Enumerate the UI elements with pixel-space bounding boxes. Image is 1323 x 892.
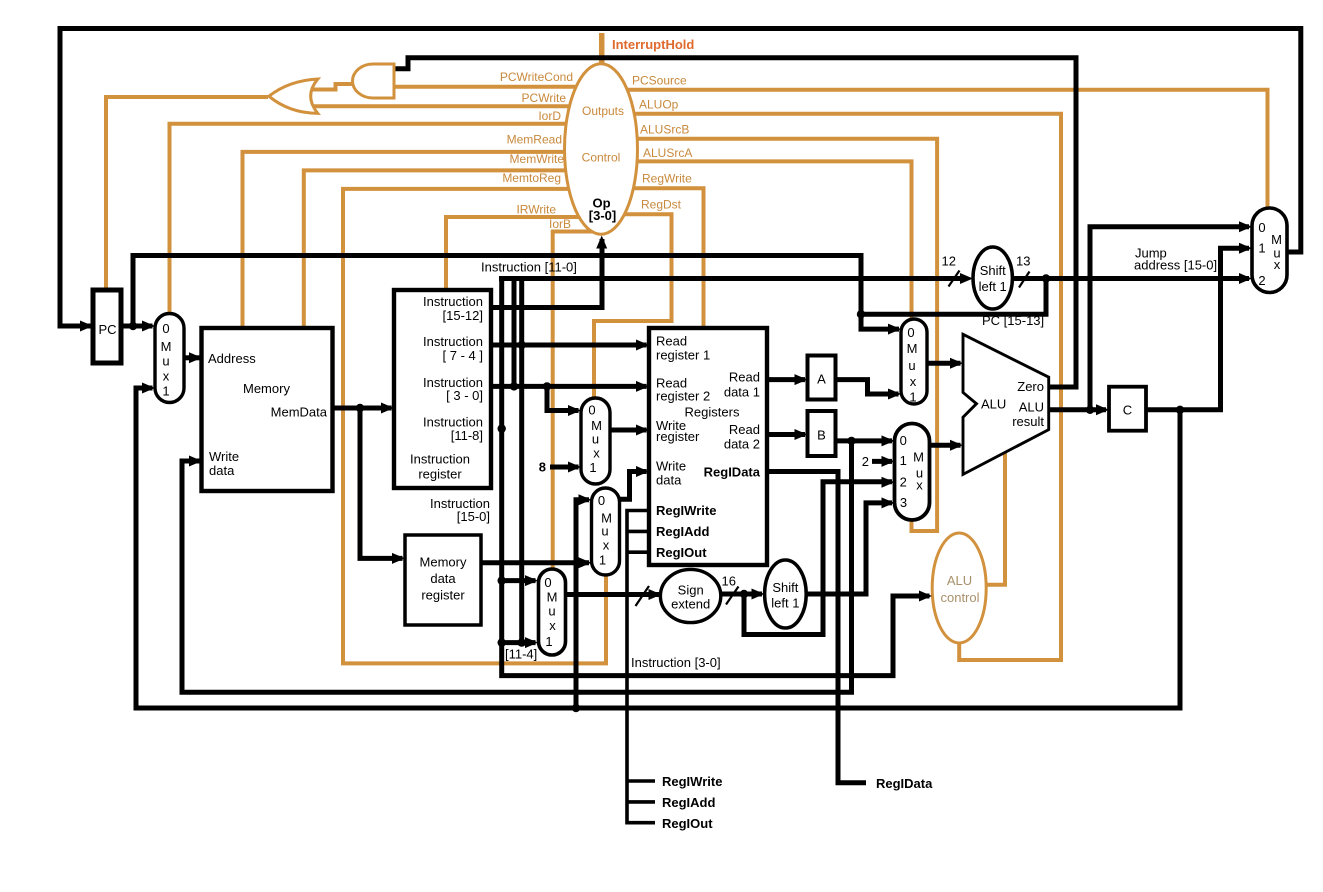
svg-text:x: x [916, 478, 923, 493]
wire constant 2 stub to B mux input 1 [872, 459, 892, 464]
wire address mux output to memory address [184, 355, 200, 360]
svg-text:left 1: left 1 [979, 279, 1007, 294]
svg-text:1: 1 [1258, 241, 1265, 256]
svg-text:u: u [162, 354, 169, 369]
wire IorB (control to [11-4] mux select) [553, 232, 599, 569]
svg-text:Address: Address [208, 351, 256, 366]
arrow into ALU input 2 [950, 440, 963, 451]
svg-text:M: M [547, 590, 558, 605]
wire PC write enable (gate output to PC) [106, 97, 268, 290]
svg-text:ALUSrcB: ALUSrcB [640, 123, 689, 137]
wire Instruction [3-0] to read register 2 [491, 384, 647, 389]
mux [11-4] (IorB) [539, 569, 566, 655]
arrow into B register [795, 429, 808, 440]
wire MemWrite (control to memory) [304, 170, 600, 327]
arrow into memory write data [189, 456, 202, 467]
wire Instruction [11-0] bus to shift left 1 [499, 276, 966, 281]
svg-text:M: M [913, 450, 924, 465]
svg-text:Instruction: Instruction [423, 294, 483, 309]
svg-text:x: x [593, 446, 600, 461]
wire RegIWrite bottom stub [627, 779, 655, 783]
mux write-data (MemtoReg) [592, 488, 620, 575]
wire [11-4] mux output to sign extend [565, 592, 659, 597]
svg-text:address [15-0]: address [15-0] [1134, 258, 1217, 273]
svg-text:ALU: ALU [1019, 400, 1044, 415]
svg-text:MemRead: MemRead [507, 133, 562, 147]
svg-text:RegDst: RegDst [641, 198, 682, 212]
memory data register box [405, 535, 481, 625]
svg-text:PC [15-13]: PC [15-13] [982, 313, 1044, 328]
wire sign extend tap to B mux input 2 [744, 482, 892, 635]
svg-text:PCWriteCond: PCWriteCond [500, 70, 573, 84]
svg-text:x: x [910, 374, 917, 389]
svg-text:13: 13 [1016, 254, 1030, 269]
arrow into shift left 1 (jump) [960, 273, 973, 284]
wire [11-4] mux input 0 tap [502, 578, 536, 583]
svg-text:Write: Write [656, 459, 686, 474]
svg-text:MemWrite: MemWrite [510, 152, 565, 166]
wire InterruptHold stub [599, 33, 605, 64]
wire ALU control output to ALU [986, 452, 1005, 585]
svg-text:u: u [601, 524, 608, 539]
mux write-register (8 mux) [581, 398, 610, 484]
arrow into address mux input 0 [142, 321, 155, 332]
wire Zero flag to AND gate [392, 58, 1076, 387]
arrow into ALU input 1 [950, 358, 963, 369]
svg-text:extend: extend [671, 597, 710, 612]
sign extend oval [660, 569, 720, 622]
svg-text:Shift: Shift [980, 263, 1006, 278]
svg-text:[11-8]: [11-8] [451, 428, 483, 443]
wire write-register mux output to registers [610, 428, 647, 433]
svg-text:left 1: left 1 [771, 596, 799, 611]
svg-text:0: 0 [598, 493, 605, 508]
svg-text:u: u [908, 358, 915, 373]
wire write-data mux output to registers write data [620, 472, 647, 500]
arrow into PC [80, 321, 93, 332]
wire ALU result to jump mux input 0 [1090, 227, 1249, 410]
svg-text:RegIAdd: RegIAdd [662, 795, 716, 810]
shift left 1 oval (branch) [765, 560, 807, 628]
svg-text:[ 3 - 0]: [ 3 - 0] [446, 388, 483, 403]
svg-text:2: 2 [1258, 273, 1265, 288]
mux address (IorD) [155, 314, 184, 403]
arrow into jump mux input 2 [1239, 273, 1252, 284]
wire RegIAdd bottom stub [627, 800, 655, 804]
svg-text:RegWrite: RegWrite [642, 172, 692, 186]
svg-text:[ 7 - 4 ]: [ 7 - 4 ] [443, 348, 483, 363]
arrow into instruction register [381, 403, 394, 414]
control unit oval [565, 64, 638, 234]
svg-text:register 2: register 2 [656, 389, 710, 404]
svg-text:0: 0 [1258, 220, 1265, 235]
svg-text:Control: Control [582, 151, 621, 165]
wire RegWrite (control to registers) [603, 188, 704, 328]
svg-text:A: A [817, 372, 826, 387]
svg-text:0: 0 [907, 325, 914, 340]
svg-text:data 1: data 1 [724, 385, 760, 400]
svg-text:M: M [907, 341, 918, 356]
arrow into memory data register [392, 553, 405, 564]
OR gate (PCWrite) [269, 79, 318, 113]
arrow into write-register mux input 1 [568, 462, 581, 473]
arrow into write-register mux input 0 [568, 405, 581, 416]
svg-text:data: data [656, 473, 682, 488]
svg-text:ALUSrcA: ALUSrcA [643, 146, 692, 160]
wire MemRead (control to memory) [243, 152, 601, 328]
svg-text:Shift: Shift [772, 580, 798, 595]
svg-text:PC: PC [98, 322, 116, 337]
svg-text:Zero: Zero [1017, 379, 1044, 394]
AND gate (PCWriteCond & Zero) [353, 64, 395, 98]
registers box [649, 328, 767, 565]
svg-text:Write: Write [209, 449, 239, 464]
wire read data 1 to A register [767, 377, 805, 382]
wire MemData branch to memory data register [360, 408, 403, 558]
bus width slashes [636, 271, 1030, 607]
svg-text:PCWrite: PCWrite [522, 91, 567, 105]
arrow into address mux input 1 [142, 383, 155, 394]
svg-text:1: 1 [909, 390, 916, 405]
wire [11-4] mux input 1 line [502, 640, 536, 645]
wire PC [15-13] to jump address merge [861, 279, 1046, 315]
wire shift left 1 output to jump mux input 2 [1012, 276, 1249, 281]
wire MemData to instruction register [333, 406, 392, 411]
svg-text:16: 16 [722, 574, 736, 589]
svg-text:x: x [549, 618, 556, 633]
svg-text:IorD: IorD [538, 109, 561, 123]
register PC [93, 290, 121, 363]
svg-text:IRWrite: IRWrite [516, 203, 556, 217]
arrow into read register 1 [636, 340, 649, 351]
arrow into shift left 1 (branch) [752, 589, 765, 600]
svg-text:data: data [430, 571, 456, 586]
svg-text:InterruptHold: InterruptHold [612, 37, 694, 52]
svg-text:[11-4]: [11-4] [505, 647, 537, 662]
arrow into B mux input 0 [882, 435, 895, 446]
wire bottom loop tap to write-data mux input 0 [576, 500, 589, 708]
svg-text:Registers: Registers [685, 405, 740, 420]
arrow into jump mux input 1 [1239, 243, 1252, 254]
svg-text:register: register [421, 588, 465, 603]
svg-text:Read: Read [729, 370, 760, 385]
svg-text:RegIOut: RegIOut [662, 816, 713, 831]
slash sign extend output (16) [726, 587, 739, 605]
svg-text:[3-0]: [3-0] [589, 208, 616, 223]
svg-text:register: register [418, 467, 462, 482]
svg-text:Sign: Sign [678, 583, 704, 598]
svg-text:2: 2 [862, 454, 869, 469]
wire B register to memory write data (bottom loop) [182, 441, 852, 692]
slash sign extend input [636, 586, 650, 606]
wire jump mux output loop to PC [60, 29, 1301, 327]
svg-text:ALU: ALU [981, 397, 1006, 412]
wire C register to address mux input 1 and write-data mux (bottom loop) [136, 388, 1180, 708]
wire IRWrite (control to instruction register) [446, 217, 600, 290]
wire PC output to address mux [121, 324, 153, 329]
arrow into write register [636, 425, 649, 436]
arrow into control Op input [596, 236, 607, 249]
svg-text:0: 0 [162, 321, 169, 336]
register B [808, 411, 836, 456]
wire RegIAdd stub at registers [627, 530, 649, 534]
svg-text:1: 1 [545, 634, 552, 649]
arrow into ALU control [919, 591, 932, 602]
wire PC value bus to ALUSrcA mux input 0 [133, 256, 899, 330]
svg-text:Memory: Memory [420, 555, 467, 570]
svg-text:Instruction: Instruction [423, 334, 483, 349]
wire Instruction [15-12] to control Op input [491, 239, 602, 308]
wire ALUSrcB mux output to ALU [929, 443, 961, 448]
svg-text:C: C [1123, 403, 1132, 418]
wire memory data register to write-data mux input 1 [481, 560, 589, 565]
svg-text:x: x [603, 538, 610, 553]
svg-text:ALUOp: ALUOp [639, 98, 679, 112]
svg-text:0: 0 [900, 433, 907, 448]
arrow into ALUSrcA mux input 0 [888, 324, 901, 335]
wire RegDst (control to write-register mux select) [594, 214, 672, 397]
wire C register output to jump mux input 1 [1146, 248, 1249, 410]
svg-text:register 1: register 1 [656, 348, 710, 363]
svg-text:register: register [656, 429, 700, 444]
arrow into read register 2 [636, 381, 649, 392]
wire ALU result to C register [1048, 407, 1106, 412]
svg-text:u: u [592, 432, 599, 447]
wire Instruction [7-4] to read register 1 [491, 343, 647, 348]
svg-text:[15-12]: [15-12] [443, 308, 483, 323]
svg-text:IorB: IorB [549, 217, 571, 231]
wire PCWrite (control to OR gate) [309, 104, 600, 108]
register C [1109, 387, 1146, 431]
svg-text:Instruction: Instruction [410, 452, 470, 467]
wire ALUSrcB (control to B mux select) [603, 139, 937, 531]
mux ALUSrcB [895, 424, 930, 521]
wire Instruction [3-0] branch to write-register mux input 0 [547, 386, 579, 410]
svg-text:control: control [940, 590, 979, 605]
svg-text:[15-0]: [15-0] [457, 509, 490, 524]
svg-text:Outputs: Outputs [582, 104, 624, 118]
wire PCWriteCond (control to AND gate) [394, 85, 600, 89]
svg-text:12: 12 [942, 254, 956, 269]
svg-text:x: x [1274, 257, 1281, 272]
arrow into sign extend [649, 589, 662, 600]
svg-text:result: result [1012, 414, 1044, 429]
wire IorD (control to address mux select) [170, 124, 601, 314]
wire ALUSrcA (control to A mux select) [603, 161, 912, 320]
wire constant 8 stub to write-register mux input 1 [550, 465, 579, 470]
arrow into memory address [189, 352, 202, 363]
wire RegIOut stub at registers [627, 550, 649, 554]
arrow into write-data mux input 0 [579, 494, 592, 505]
svg-text:2: 2 [900, 475, 907, 490]
svg-text:M: M [161, 339, 172, 354]
svg-text:ALU: ALU [947, 573, 972, 588]
wire sign extend output to shift left 1 [720, 592, 762, 597]
wire B register to ALUSrcB mux input 0 [835, 438, 892, 443]
wire ALUSrcA mux output to ALU [927, 361, 961, 366]
svg-text:MemData: MemData [271, 405, 328, 420]
arrow into A register [795, 374, 808, 385]
svg-text:8: 8 [539, 460, 546, 475]
svg-text:1: 1 [900, 453, 907, 468]
wire AND gate output jog to OR gate [310, 84, 354, 90]
svg-text:MemtoReg: MemtoReg [502, 171, 561, 185]
svg-text:RegIData: RegIData [876, 776, 933, 791]
arrow into B mux input 2 [882, 477, 895, 488]
wire A register to ALUSrcA mux input 1 [835, 380, 899, 394]
arrow into write-data mux input 1 [579, 557, 592, 568]
svg-text:Instruction [3-0]: Instruction [3-0] [631, 655, 721, 670]
arrow into registers write data [636, 466, 649, 477]
arrow into jump mux input 0 [1239, 221, 1252, 232]
svg-text:x: x [163, 369, 170, 384]
wire read data 2 to B register [767, 432, 805, 437]
wire ALUOp (control to ALU control) [603, 114, 1061, 660]
svg-text:0: 0 [544, 575, 551, 590]
arrow into [11-4] mux input 0 [525, 575, 538, 586]
svg-text:Instruction [11-0]: Instruction [11-0] [481, 260, 577, 275]
svg-text:RegIData: RegIData [704, 465, 761, 480]
svg-text:u: u [548, 604, 555, 619]
wire MemtoReg (control to write-data mux select) [343, 189, 606, 664]
svg-text:data: data [209, 463, 235, 478]
memory box [202, 328, 333, 491]
wire instruction field bus A ([11-8]) and Instruction [3-0] line to ALU control [502, 279, 930, 676]
svg-text:3: 3 [900, 495, 907, 510]
svg-text:RegIOut: RegIOut [656, 545, 707, 560]
svg-text:RegIWrite: RegIWrite [662, 774, 722, 789]
arrow into C register [1096, 404, 1109, 415]
wire instruction field bus C ([7-4] tap) to [11-4] mux input 1 [519, 279, 524, 643]
svg-text:B: B [817, 428, 826, 443]
svg-text:0: 0 [588, 403, 595, 418]
wire shift left 1 output to B mux input 3 [806, 503, 892, 594]
wire instruction field bus B ([3-0] tap) [512, 279, 517, 387]
ALU control oval [932, 533, 986, 643]
wire RegIData from registers to bottom label [767, 472, 866, 783]
arrow into B mux input 3 [882, 497, 895, 508]
svg-text:1: 1 [162, 384, 169, 399]
svg-text:Memory: Memory [243, 381, 290, 396]
svg-text:RegIWrite: RegIWrite [656, 503, 716, 518]
register A [808, 356, 836, 400]
ALU [963, 334, 1049, 474]
arrow into ALUSrcA mux input 1 [888, 389, 901, 400]
mux ALUSrcA [901, 319, 927, 404]
shift left 1 oval (jump) [973, 247, 1012, 309]
wire RegIWrite RegIAdd RegIOut bracket [627, 511, 655, 823]
svg-text:RegIAdd: RegIAdd [656, 524, 710, 539]
instruction register box [394, 290, 491, 488]
arrow into [11-4] mux input 1 [525, 637, 538, 648]
ARROWHEADS [80, 221, 1252, 648]
slash shift output (13) [1019, 272, 1030, 288]
arrow into B mux input 1 [882, 456, 895, 467]
wire PCSource (control to jump mux select) [603, 90, 1268, 208]
svg-text:Read: Read [729, 422, 760, 437]
mux jump (PCSource) [1252, 208, 1287, 293]
svg-text:data 2: data 2 [724, 437, 760, 452]
slash shift input (12) [949, 271, 960, 287]
svg-text:1: 1 [589, 460, 596, 475]
svg-text:PCSource: PCSource [632, 74, 687, 88]
svg-text:Read: Read [656, 334, 687, 349]
svg-text:1: 1 [599, 553, 606, 568]
